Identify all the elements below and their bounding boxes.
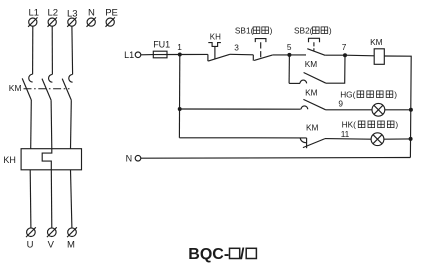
wire SB2 to node7	[325, 54, 345, 56]
label SB1(stop)	[235, 26, 273, 36]
label SB2(start)	[294, 26, 332, 36]
label HK(stop indicator)	[342, 120, 399, 130]
svg-text:3: 3	[234, 43, 239, 53]
svg-text:): )	[394, 90, 397, 100]
wire L1 to fuse	[141, 54, 154, 56]
svg-text:): )	[329, 26, 332, 36]
svg-text:M: M	[67, 239, 75, 250]
KM NO contact (HG branch)	[301, 99, 326, 109]
node HG branch	[178, 107, 182, 111]
terminal L1 (control)	[135, 52, 141, 58]
wire to seal-in arc	[289, 82, 300, 84]
terminal L3	[67, 17, 76, 26]
title box 1	[230, 248, 240, 258]
wire coil to right rail	[384, 56, 411, 158]
terminal PE	[106, 17, 115, 26]
svg-text:KM: KM	[306, 123, 319, 133]
wire HG branch to KM contact	[180, 108, 301, 110]
coil KM	[374, 49, 384, 65]
left rail node1 down	[178, 55, 180, 138]
svg-text:HG(: HG(	[340, 90, 355, 100]
svg-text:HK(: HK(	[342, 120, 357, 130]
svg-text:N: N	[88, 8, 95, 19]
svg-text:N: N	[126, 153, 133, 163]
thermal relay KH box	[21, 149, 81, 170]
wire pole1 to KH	[30, 100, 33, 149]
svg-text:U: U	[27, 239, 34, 250]
terminal M	[67, 227, 77, 237]
lamp HK	[371, 133, 384, 146]
svg-text:L1: L1	[124, 50, 134, 60]
node 1	[178, 53, 182, 57]
wire KM contact to lamp HG	[326, 109, 372, 111]
svg-text:): )	[395, 120, 398, 130]
left rail corner to HK branch	[179, 137, 306, 139]
svg-text:KM: KM	[370, 37, 383, 47]
KM NC contact (HK branch)	[300, 138, 325, 148]
wire node7 to coil	[345, 54, 374, 57]
lamp HG	[372, 103, 385, 116]
svg-text:SB1(: SB1(	[235, 26, 254, 36]
svg-text:9: 9	[338, 99, 343, 109]
wire node5 down to seal-in contact	[288, 55, 290, 84]
svg-text:KM: KM	[9, 83, 22, 93]
contactor KM main contact pole1	[22, 74, 32, 100]
terminal N	[87, 17, 96, 26]
wire L3 to KM pole3	[71, 26, 74, 74]
wire lamp HK to right rail	[384, 138, 411, 140]
title box 2	[246, 248, 256, 258]
contactor KM main contact pole2	[42, 74, 52, 100]
wire seal-in to node7	[326, 55, 345, 83]
pushbutton SB2 start (NO)	[307, 38, 325, 55]
svg-text:5: 5	[287, 42, 292, 52]
terminal N (control)	[135, 155, 141, 161]
wire pole2 to KH	[50, 100, 53, 149]
title BQC-box/box	[188, 246, 245, 263]
svg-text:KH: KH	[210, 33, 221, 42]
thermal contact KH (NC)	[208, 43, 230, 62]
svg-text:7: 7	[342, 42, 347, 52]
terminal U	[26, 227, 36, 237]
terminal V	[47, 227, 57, 237]
wire pole3 to KH	[70, 100, 73, 149]
svg-text:L2: L2	[48, 8, 59, 19]
mechanical linkage dash-dot line	[24, 88, 70, 90]
label HG(run indicator)	[340, 90, 397, 100]
svg-text:/: /	[240, 246, 245, 263]
node HK right	[409, 137, 413, 141]
wire node5 to SB2	[289, 54, 306, 56]
wire KM NC to lamp HK	[325, 138, 371, 141]
node 5	[287, 53, 291, 57]
wire SB1 to node5	[273, 54, 290, 56]
thermal relay KH heater element	[42, 149, 52, 170]
wire KH to U	[29, 170, 32, 228]
svg-text:V: V	[48, 239, 55, 250]
svg-text:KM: KM	[305, 59, 318, 69]
wire N line	[141, 157, 411, 160]
terminal L2	[48, 17, 57, 26]
svg-text:L3: L3	[67, 8, 78, 19]
svg-text:KM: KM	[305, 88, 318, 98]
svg-text:FU1: FU1	[153, 39, 170, 49]
pushbutton SB1 stop (NC)	[253, 39, 272, 61]
svg-text:SB2(: SB2(	[294, 26, 313, 36]
svg-text:1: 1	[177, 42, 182, 52]
wire KH contact to SB1	[230, 53, 253, 56]
svg-text:KH: KH	[3, 155, 16, 165]
wire lamp HG to right rail	[385, 109, 411, 111]
fuse FU1	[153, 51, 179, 58]
wire KH to V	[50, 170, 53, 228]
wire L2 to KM pole2	[51, 26, 53, 74]
svg-text:L1: L1	[29, 8, 40, 19]
contactor KM main contact pole3	[62, 74, 72, 100]
svg-text:PE: PE	[105, 8, 118, 19]
KM auxiliary seal-in contact (NO)	[300, 73, 326, 84]
wire node1 to KH contact	[180, 53, 208, 55]
svg-text:): )	[270, 26, 273, 36]
node 7	[343, 53, 347, 57]
svg-text:BQC-: BQC-	[188, 246, 229, 263]
wire L1 to KM pole1	[32, 26, 34, 74]
svg-text:11: 11	[341, 129, 350, 139]
node HG right	[409, 108, 413, 112]
terminal L1	[28, 17, 37, 26]
wire KH to M	[71, 170, 72, 228]
